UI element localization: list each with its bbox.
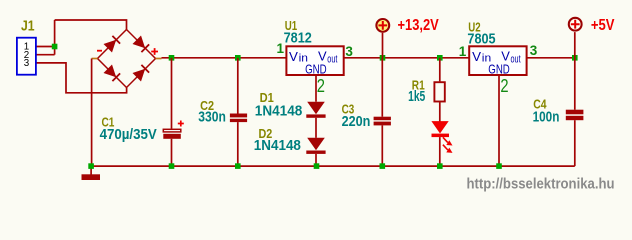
node junction ground U2 GND bbox=[496, 163, 502, 169]
node junction at J1 pin1 bbox=[52, 44, 58, 50]
svg-text:1k5: 1k5 bbox=[408, 89, 425, 105]
svg-text:3: 3 bbox=[530, 43, 538, 58]
svg-text:1N4148: 1N4148 bbox=[255, 103, 302, 119]
regulator U1 7812 bbox=[286, 46, 343, 76]
svg-text:out: out bbox=[327, 53, 337, 65]
svg-text:2: 2 bbox=[317, 75, 325, 96]
wire D2 to ground rail bbox=[315, 154, 317, 166]
bridge rectifier diamond bbox=[98, 30, 156, 88]
diode D1 bbox=[306, 102, 325, 118]
svg-text:7805: 7805 bbox=[467, 31, 495, 47]
diode bridge upper-right bbox=[133, 36, 150, 53]
pin stub bridge right bbox=[156, 58, 162, 60]
node junction ground LED bbox=[437, 163, 443, 169]
wire top rail from J1 to bridge AC top bbox=[55, 20, 127, 30]
wire U2 GND pin to ground rail bbox=[498, 75, 500, 166]
connector J1 bbox=[17, 38, 36, 75]
node junction ground C3 bbox=[380, 163, 386, 169]
bridge plus mark bbox=[151, 48, 158, 55]
svg-text:330n: 330n bbox=[198, 109, 226, 125]
svg-text:1N4148: 1N4148 bbox=[254, 138, 301, 154]
node junction rail R1 bbox=[437, 55, 443, 61]
svg-text:http://bsselektronika.hu: http://bsselektronika.hu bbox=[467, 177, 615, 193]
svg-text:7812: 7812 bbox=[284, 30, 312, 46]
svg-text:+13,2V: +13,2V bbox=[398, 17, 439, 34]
capacitor C1 electrolytic bbox=[163, 58, 184, 166]
svg-text:100n: 100n bbox=[533, 109, 560, 125]
node junction rail +5V bbox=[572, 55, 578, 61]
wire rail U1 to U2 bbox=[344, 57, 470, 59]
regulator U2 7805 bbox=[469, 46, 526, 76]
ground symbol bbox=[82, 166, 101, 180]
wire bridge minus down to ground rail bbox=[91, 59, 93, 167]
svg-text:out: out bbox=[511, 53, 521, 65]
svg-text:J1: J1 bbox=[21, 19, 35, 35]
capacitor C3 bbox=[374, 58, 391, 166]
wire D1 to D2 bbox=[315, 118, 317, 138]
pin stub bridge left bbox=[92, 58, 98, 60]
wire rail U2 to +5V node bbox=[527, 57, 575, 59]
power symbol +5V bbox=[569, 18, 582, 58]
wire J1 pin3 to bridge AC bottom bbox=[36, 63, 127, 93]
svg-text:1: 1 bbox=[459, 44, 467, 59]
bridge minus mark bbox=[97, 50, 102, 52]
power symbol +13,2V bbox=[376, 19, 389, 58]
capacitor C4 bbox=[566, 58, 584, 166]
node junction rail C3 bbox=[380, 55, 386, 61]
node junction ground C2 bbox=[235, 163, 241, 169]
LED D3 bbox=[431, 121, 452, 166]
diode bridge lower-left bbox=[104, 65, 121, 82]
diode bridge lower-right bbox=[133, 65, 150, 82]
svg-text:3: 3 bbox=[24, 58, 30, 69]
wire ground rail bbox=[91, 165, 575, 167]
wire U1 GND pin down bbox=[315, 75, 317, 102]
wire J1 pin2 stub bbox=[36, 54, 55, 56]
node junction ground at bridge minus bbox=[88, 163, 94, 169]
node junction ground D2 bbox=[314, 163, 320, 169]
node junction rail C2 bbox=[235, 55, 241, 61]
svg-text:V: V bbox=[289, 49, 298, 64]
capacitor C2 bbox=[230, 58, 247, 166]
wire main +V rail bridge to U1 bbox=[162, 57, 287, 59]
wire J1 pin1 stub bbox=[36, 46, 55, 48]
resistor R1 bbox=[434, 58, 444, 122]
svg-text:470µ/35V: 470µ/35V bbox=[100, 127, 157, 143]
node junction ground C1 bbox=[169, 163, 175, 169]
wire J1 pins 1-2 vertical tie bbox=[54, 20, 56, 55]
diode D2 bbox=[306, 138, 325, 154]
svg-text:1: 1 bbox=[276, 41, 284, 56]
svg-text:220n: 220n bbox=[342, 114, 371, 130]
svg-text:V: V bbox=[472, 49, 481, 64]
node junction rail C1 bbox=[169, 55, 175, 61]
svg-text:2: 2 bbox=[500, 75, 508, 96]
svg-text:+5V: +5V bbox=[591, 17, 615, 34]
diode bridge upper-left bbox=[104, 36, 121, 53]
